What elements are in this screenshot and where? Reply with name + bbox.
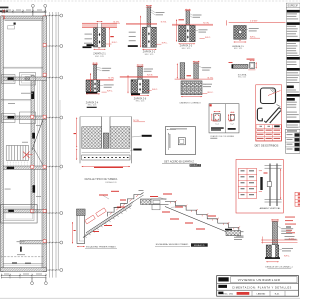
tuberia detail base strip <box>82 153 130 161</box>
estribo hook C <box>257 108 262 121</box>
grid bubble column 1 top <box>31 4 34 16</box>
column marker R1 <box>43 44 46 47</box>
footing detail Z-4 red ground line <box>227 20 286 25</box>
especificaciones strip <box>286 3 300 128</box>
footing outline Z row1 left <box>2 75 16 84</box>
footing detail Z-5 N.T.N. label <box>108 78 114 80</box>
armado vertical table <box>238 169 256 199</box>
corner label marks <box>0 7 8 13</box>
cimiento corrido ground line <box>175 77 214 79</box>
grid bubble right 6 <box>60 212 63 215</box>
tuberia detail top label <box>87 107 97 108</box>
svg-text:N.F.C.: N.F.C. <box>107 90 113 92</box>
footing detail Z-2 ground line <box>126 24 157 25</box>
footing detail Z-1 ground band <box>82 21 117 28</box>
svg-text:ESCALERA: PRIMER TRAMO: ESCALERA: PRIMER TRAMO <box>86 246 116 249</box>
plan column fill v2 <box>32 133 35 139</box>
stair1 steps <box>108 190 144 216</box>
svg-text:ESCALA 1:25: ESCALA 1:25 <box>190 164 200 167</box>
svg-text:DET. DE ESTRIBOS: DET. DE ESTRIBOS <box>255 144 279 148</box>
footing detail Z-2 footing body <box>142 27 156 47</box>
estribo stirrup square <box>261 88 281 104</box>
column marker R10 <box>31 210 34 213</box>
estribos table <box>256 125 281 141</box>
footing detail Z-5 leader labels <box>97 67 112 71</box>
footing outline Z row2 mid <box>20 112 36 124</box>
cimiento corrido N.F.C. <box>202 92 213 94</box>
footing detail Z-6 title <box>134 97 147 102</box>
footing detail Z-6 N.T.N. label <box>147 75 153 77</box>
svg-text:N.F.C.: N.F.C. <box>208 92 214 94</box>
footing detail Z-6 solado bar <box>131 93 140 95</box>
column marker R9 <box>31 165 34 168</box>
solera section square <box>248 60 257 70</box>
svg-text:N.T.N.: N.T.N. <box>147 75 153 77</box>
interior partition wall upper <box>4 67 43 68</box>
svg-text:ESC. 1/25: ESC. 1/25 <box>234 48 242 50</box>
svg-text:ESC. 1/25: ESC. 1/25 <box>238 76 246 78</box>
svg-text:ESPECIF.: ESPECIF. <box>288 4 299 7</box>
footing detail Z-6 footing body <box>131 80 149 94</box>
grid bubble right 4 <box>60 116 63 119</box>
footing detail Z-2 solado bar <box>128 45 138 47</box>
footing detail Z-6 ground line <box>120 77 158 78</box>
svg-text:N.F.C.: N.F.C. <box>112 42 118 44</box>
plan left wall <box>1 16 4 272</box>
stair2 steps <box>152 202 244 237</box>
title block frame <box>217 276 299 297</box>
svg-text:DET. ACERO EN ZAPATA Z: DET. ACERO EN ZAPATA Z <box>164 161 194 164</box>
solera red top label <box>229 59 255 63</box>
footing detail Z-2 N.T.N. label <box>161 21 167 23</box>
footing detail Z-3 leader labels <box>190 14 202 18</box>
det acero zapata inner square <box>178 138 185 145</box>
svg-text:CIMIENTO CORRIDO: CIMIENTO CORRIDO <box>179 102 201 104</box>
svg-text:E-01: E-01 <box>275 293 280 295</box>
bottom dimension chain <box>1 274 47 279</box>
svg-text:ESC. 1/25: ESC. 1/25 <box>88 105 97 107</box>
footing detail Z-5 left dim <box>90 73 91 91</box>
svg-text:DETALLE TIPICO DE TUBERIA: DETALLE TIPICO DE TUBERIA <box>85 178 118 181</box>
armado vertical title <box>260 207 282 210</box>
column marker A2 <box>43 16 46 19</box>
svg-text:N.T.N.: N.T.N. <box>108 78 114 80</box>
tuberia legend table <box>286 129 301 153</box>
column detail bottom dim <box>266 261 279 262</box>
tuberia detail bottom red dim <box>82 166 130 168</box>
footing detail Z-1 title <box>93 53 106 58</box>
strip footing beam B <box>3 77 46 80</box>
svg-text:ESC. 1/25: ESC. 1/25 <box>136 101 145 103</box>
svg-text:ESC. 1/50: ESC. 1/50 <box>223 293 234 295</box>
footing detail Z-1 bottom dim <box>94 47 106 50</box>
plan column fill b4 <box>8 210 14 212</box>
column marker R3 <box>43 115 46 118</box>
svg-text:N.F.C.: N.F.C. <box>162 42 168 44</box>
cimiento corrido right labels <box>202 84 212 87</box>
svg-text:N.T.N.: N.T.N. <box>208 77 214 79</box>
svg-text:2 Ø 3/8": 2 Ø 3/8" <box>250 21 258 23</box>
grid bubble column 2 top <box>44 4 47 16</box>
footing detail Z-5 column <box>92 63 98 81</box>
footing detail Z-3 column <box>185 9 191 26</box>
tuberia detail right labels <box>130 135 152 151</box>
column marker R8 <box>31 115 34 118</box>
footing detail Z-3 N.F.C. label <box>200 37 212 39</box>
footing detail Z-2 left labels <box>129 32 136 42</box>
armado vertical column bars <box>259 164 282 207</box>
estribos panel frame <box>256 85 282 141</box>
footing detail Z-6 left dim <box>127 75 128 93</box>
plan right wall <box>42 16 47 272</box>
footing detail Z-6 rebar dot <box>132 80 134 82</box>
tuberia detail NTN right <box>133 120 145 122</box>
grid bubble right 2 <box>60 45 63 48</box>
tuberia detail soil hatch <box>82 127 130 149</box>
footing detail Z-4 title <box>232 45 245 50</box>
plan bottom wall <box>1 268 47 272</box>
svg-text:N.T.N.: N.T.N. <box>203 22 209 24</box>
interior partition wall mid <box>1 100 31 101</box>
plan text labels <box>5 23 41 243</box>
cimiento corrido wall bar <box>177 63 185 80</box>
footing detail Z-1 N.T.N. label <box>113 22 121 24</box>
footing detail Z-3 left dim <box>176 20 177 42</box>
svg-text:ESCALA 1:25: ESCALA 1:25 <box>194 244 204 247</box>
strip footing beam E <box>3 210 46 213</box>
sheet bottom edge line <box>0 297 300 299</box>
footing detail Z-5 title <box>86 101 99 106</box>
footing detail Z-3 ground line <box>172 24 213 25</box>
column section C-1 <box>211 111 220 121</box>
section cut line <box>32 118 45 168</box>
footing detail Z-1 right dim <box>109 28 114 47</box>
det acero zapata title <box>162 161 201 168</box>
strip footing beam C <box>3 116 46 119</box>
stair plan treads <box>6 146 28 167</box>
tuberia detail frame <box>80 117 132 164</box>
red notes right edge <box>285 217 297 240</box>
footing detail Z-4 bottom dim <box>234 39 247 42</box>
armado vertical panel frame <box>236 160 283 214</box>
red mini table <box>295 192 301 206</box>
svg-text:CUADRO DE COLUMNAS: CUADRO DE COLUMNAS <box>210 135 235 138</box>
grid bubble bottom 1 <box>31 278 34 285</box>
strip footing beam D <box>3 166 46 169</box>
stair1 red dims <box>85 191 139 232</box>
stair1 foundation <box>72 209 85 247</box>
footing detail Z-2 title <box>143 51 156 56</box>
plan column fill b2 <box>8 116 15 119</box>
svg-text:DETALLE DE COLUMNA C-1: DETALLE DE COLUMNA C-1 <box>265 266 293 269</box>
footing detail Z-5 bottom dim <box>86 93 100 94</box>
svg-text:ESCALERA: SEGUNDO TRAMO: ESCALERA: SEGUNDO TRAMO <box>156 243 189 246</box>
footing detail Z-5 footing body <box>86 80 100 92</box>
grid bubble right 7 <box>60 241 63 244</box>
column marker R2 <box>43 73 46 76</box>
footing detail Z-4 N.F.C. label <box>250 37 260 39</box>
footing detail Z-2 bottom dim <box>142 49 156 50</box>
svg-text:ESCALA 1:20: ESCALA 1:20 <box>106 181 117 184</box>
cimiento corrido leader labels <box>198 66 211 71</box>
footing detail Z-1 left labels <box>84 34 92 44</box>
grid bubble right 1 <box>60 14 63 17</box>
stair direction arrow <box>23 152 33 159</box>
plan column fill b3 <box>7 167 14 169</box>
grid bubble bottom 2 <box>44 278 47 285</box>
footing detail Z-5 N.F.C. label <box>102 90 114 92</box>
footing detail Z-2 N.F.C. label <box>156 42 168 44</box>
footing detail Z-6 leader labels <box>142 69 153 72</box>
footing detail Z-3 title <box>180 45 193 50</box>
column marker R7 <box>43 268 46 271</box>
solera bar <box>232 64 249 68</box>
footing outline Z row2 left <box>2 114 16 123</box>
grid bubble right 5 <box>60 165 63 168</box>
footing detail Z-5 ground line <box>86 80 114 81</box>
column detail title <box>265 266 293 269</box>
svg-text:N.F.C.: N.F.C. <box>205 37 211 39</box>
stair2 left ground hatch <box>141 199 152 205</box>
column section C-2 <box>228 112 234 121</box>
svg-text:N.T.N.: N.T.N. <box>161 21 167 23</box>
column detail column bar <box>271 219 279 245</box>
footing detail Z-6 column <box>137 64 144 79</box>
estribos title <box>255 144 279 148</box>
cimiento corrido column bar <box>193 61 200 79</box>
footing detail Z-5 mid labels <box>100 84 114 87</box>
footing detail Z-5 solado bar <box>86 92 97 94</box>
svg-text:N.F.C.: N.F.C. <box>284 255 290 257</box>
det acero zapata square <box>166 126 196 154</box>
stair1 title <box>85 246 117 249</box>
column marker A1 <box>2 16 5 19</box>
dashed property line <box>1 254 43 257</box>
det acero zapata left label <box>168 133 170 150</box>
cuadro de columnas frame <box>209 104 239 133</box>
stair2 landing slab <box>151 199 169 205</box>
cimiento corrido red mid label <box>187 75 192 76</box>
grid bubble right 3 <box>60 76 63 79</box>
column detail footing <box>265 245 280 259</box>
footing detail Z-6 N.F.C. label <box>147 89 159 91</box>
strip footing beam F <box>20 241 47 244</box>
stair1 sloped slab <box>83 202 134 238</box>
column marker R4 <box>43 165 46 168</box>
cimiento corrido stone footing <box>181 81 202 95</box>
column detail right labels <box>279 248 293 257</box>
stair2 title <box>155 243 208 247</box>
footing detail Z-1 N.F.C. label <box>106 42 118 44</box>
stair2 red dims <box>150 194 240 230</box>
footing detail Z-6 bottom dim <box>131 95 149 96</box>
plan top wall <box>2 16 47 21</box>
plan column fill v1 <box>31 92 34 100</box>
footing detail Z-2 column <box>146 5 152 27</box>
footing detail Z-3 solado labels <box>179 19 208 32</box>
svg-text:ESC. 1/25: ESC. 1/25 <box>182 48 191 50</box>
footing outline Z row1 mid <box>20 73 36 86</box>
svg-text:LAMINA:: LAMINA: <box>257 292 266 295</box>
right dimension chains <box>47 12 60 278</box>
column marker R6 <box>43 240 46 243</box>
grid bubble right 8 <box>60 269 63 272</box>
cimiento corrido title <box>179 102 201 104</box>
cuadro de columnas title <box>210 120 235 138</box>
interior vertical wall <box>31 76 40 214</box>
lower interior beam <box>3 247 43 266</box>
title block row3 <box>218 291 285 296</box>
estribo diagonal bars <box>264 105 281 124</box>
tuberia detail pipe column <box>102 117 110 149</box>
column detail leader labels <box>278 226 294 234</box>
footing detail Z-3 N.T.N. label <box>203 22 209 24</box>
svg-text:CIMENTACION: PLANTA Y DETALLES: CIMENTACION: PLANTA Y DETALLES <box>232 287 292 290</box>
grid line segment mid <box>59 100 61 170</box>
svg-text:ESC. 1/25: ESC. 1/25 <box>145 54 154 56</box>
column marker R5 <box>43 210 46 213</box>
tuberia detail left dim <box>74 118 78 161</box>
svg-text:ARMADO VERTICAL: ARMADO VERTICAL <box>260 207 282 210</box>
svg-text:N.F.C.: N.F.C. <box>152 89 158 91</box>
plan column fill b1 <box>8 77 14 80</box>
tuberia detail title <box>85 178 118 184</box>
footing detail Z-2 leader labels <box>151 10 165 16</box>
svg-text:VIVIENDA UNIFAMILIAR: VIVIENDA UNIFAMILIAR <box>238 278 281 282</box>
top dimension chain <box>2 9 47 13</box>
footing detail Z-1 body <box>83 28 106 48</box>
title block row2 <box>217 285 299 290</box>
plan column fill v3 <box>33 185 36 193</box>
title block row1 <box>217 277 299 284</box>
column section C-2 label <box>228 123 236 130</box>
footing detail Z-3 bottom dim <box>179 43 196 44</box>
room outline bottom-left <box>1 205 38 224</box>
footing detail Z-4 hatched plan <box>234 26 247 40</box>
cimiento corrido bottom dim <box>181 96 202 97</box>
solera title <box>238 73 247 78</box>
det acero zapata top label <box>166 128 187 130</box>
column section C-1 label <box>211 123 224 130</box>
column detail ground lines <box>261 237 297 244</box>
footing detail Z-3 footing body <box>179 25 196 41</box>
footing detail Z-2 left dim <box>140 16 141 47</box>
sheet top edge line <box>0 0 300 2</box>
stair2 end slab hatch <box>225 229 244 240</box>
svg-text:ESC. 1/25: ESC. 1/25 <box>95 56 104 58</box>
footing detail Z-4 leader labels <box>242 28 259 31</box>
svg-text:N.T.N.: N.T.N. <box>289 238 295 240</box>
